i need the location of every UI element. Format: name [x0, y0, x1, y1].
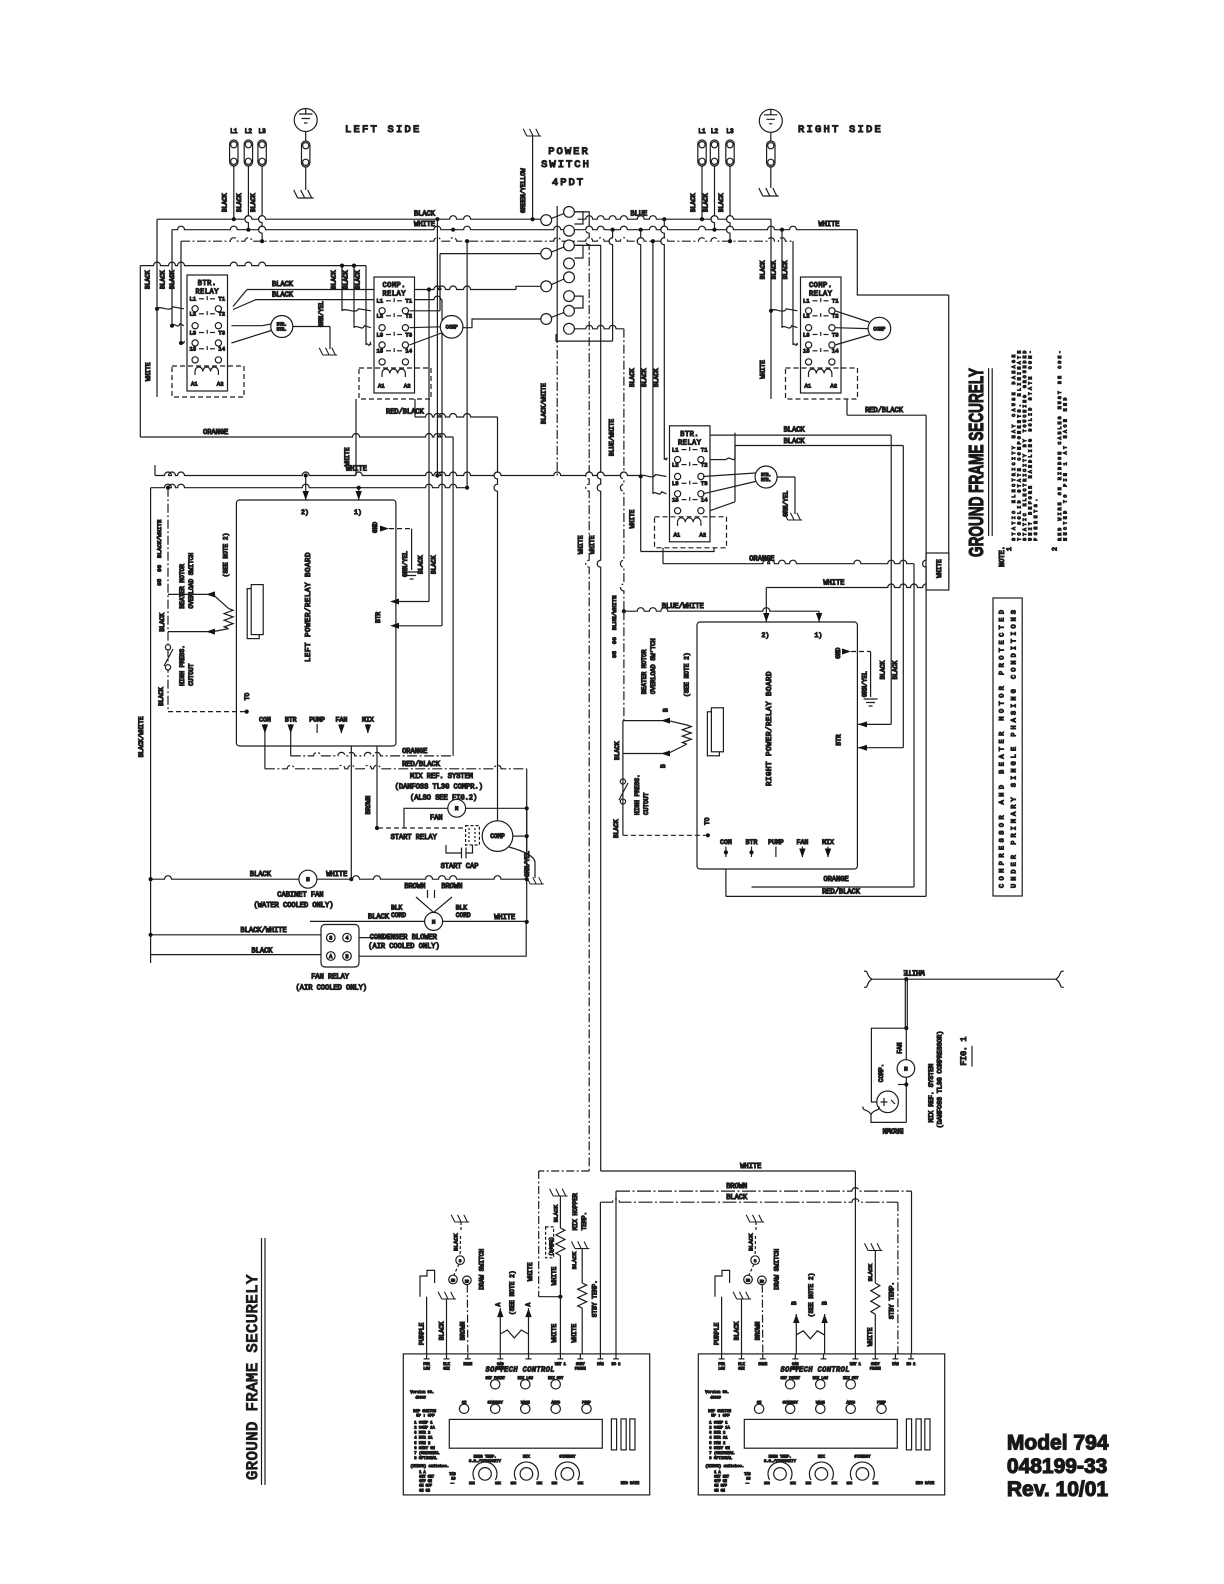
svg-text:NO: NO — [451, 1279, 455, 1283]
svg-text:--: -- — [745, 1482, 749, 1486]
svg-text:BLUE: BLUE — [631, 211, 648, 219]
protective earth symbol left — [294, 109, 317, 132]
high pressure cutout left — [165, 645, 170, 650]
svg-text:7 (ORIGINAL: 7 (ORIGINAL — [414, 1451, 440, 1456]
relay COMP left — [374, 277, 415, 393]
svg-text:A: A — [495, 1303, 502, 1307]
svg-text:10: 10 — [746, 1477, 750, 1481]
double underline ground frame right — [988, 368, 990, 536]
svg-text:1: 1 — [1006, 547, 1013, 551]
motor fan mix ref — [404, 808, 448, 828]
draw switch left panel — [451, 1215, 469, 1222]
svg-text:L3: L3 — [672, 480, 679, 487]
wire orange riser — [452, 437, 454, 756]
wire white right comp relay coil region — [770, 311, 772, 399]
overload connector block left — [247, 589, 259, 639]
svg-text:COM: COM — [259, 717, 271, 724]
svg-text:WHITE: WHITE — [629, 509, 636, 528]
svg-text:RED/BLACK: RED/BLACK — [386, 409, 425, 417]
svg-text:BLACK: BLACK — [159, 270, 166, 289]
svg-text:14: 14 — [832, 348, 839, 355]
wire black riser2 down to BTR pin right board — [902, 446, 904, 748]
svg-text:BTR.: BTR. — [761, 474, 771, 478]
svg-text:(ALSO SEE FIG.2): (ALSO SEE FIG.2) — [410, 795, 477, 803]
svg-text:L2: L2 — [711, 128, 719, 135]
svg-text:BLACK: BLACK — [355, 270, 362, 289]
motor BTR MTR right — [710, 459, 726, 461]
svg-text:SOFTECH CONTROL: SOFTECH CONTROL — [486, 1367, 556, 1375]
wire right L1 drop BLACK — [701, 166, 703, 219]
svg-text:BLACK: BLACK — [690, 193, 697, 212]
svg-text:13: 13 — [803, 348, 810, 355]
svg-text:BLACK: BLACK — [734, 1321, 741, 1340]
svg-text:DIP SWITCH: DIP SWITCH — [708, 1410, 731, 1414]
svg-text:WHITE: WHITE — [903, 968, 924, 976]
svg-text:MIG DATE: MIG DATE — [916, 1482, 935, 1486]
wire cabinet fan row — [151, 876, 527, 879]
svg-text:CORD: CORD — [391, 912, 406, 919]
wire stubs into right COMP relay — [771, 309, 797, 311]
wire bus2 left drop to relay L2 — [171, 230, 173, 326]
svg-text:STATIC ELECTRICITY MAY CAUSE D: STATIC ELECTRICITY MAY CAUSE DAMAGE — [1011, 354, 1017, 540]
wire WHITE left COMP relay coil to mid wire — [355, 399, 357, 476]
wire WHITE bottom run to right panel — [601, 1170, 856, 1172]
svg-text:BLACK: BLACK — [414, 211, 436, 219]
svg-text:BLUE/WHITE: BLUE/WHITE — [662, 603, 704, 611]
svg-text:MIN: MIN — [847, 1482, 853, 1485]
svg-text:BRWN: BRWN — [758, 1363, 767, 1367]
svg-text:Version CO.: Version CO. — [410, 1390, 434, 1395]
svg-text:WHITE: WHITE — [740, 1163, 761, 1171]
svg-text:GRN/YEL: GRN/YEL — [862, 671, 869, 697]
svg-text:A: A — [329, 954, 332, 960]
wire GRN/YEL from BTR MTR — [293, 326, 330, 328]
svg-text:6 STBY ON: 6 STBY ON — [414, 1447, 435, 1451]
wire bus2 jog down right side — [857, 230, 948, 295]
svg-text:BROWN: BROWN — [882, 1126, 903, 1134]
wire lower mid horizontal — [151, 484, 468, 488]
svg-text:5 FAN 2: 5 FAN 2 — [709, 1442, 726, 1446]
svg-text:T3: T3 — [701, 480, 708, 487]
svg-text:MIX: MIX — [822, 839, 834, 846]
svg-text:FAN RELAY: FAN RELAY — [311, 974, 350, 982]
wire bus2 tap to switch frame — [609, 230, 612, 341]
svg-text:T1: T1 — [832, 298, 839, 305]
stby temp probe right panel — [865, 1243, 883, 1250]
svg-text:MIX HOPPER: MIX HOPPER — [572, 1193, 579, 1230]
wire black riser1 down to BTR pin right board — [890, 435, 892, 724]
svg-text:LEFT POWER/RELAY BOARD: LEFT POWER/RELAY BOARD — [305, 552, 313, 662]
svg-text:SET SET: SET SET — [714, 1476, 729, 1480]
wire bus3 left drop to relay L3 — [180, 241, 182, 343]
svg-text:L2: L2 — [190, 311, 197, 318]
motor COMP compressor mix ref — [482, 821, 513, 852]
svg-text:UNIT BEFORE HANDLING SOLID STA: UNIT BEFORE HANDLING SOLID STATE COM- — [1027, 351, 1033, 541]
wire white riser right of comp — [526, 808, 528, 922]
wire riser bus3 tap down — [466, 241, 468, 488]
compressor protection note box — [993, 598, 1022, 896]
svg-text:10: 10 — [451, 1477, 455, 1481]
svg-text:RED/BLACK: RED/BLACK — [822, 888, 861, 896]
power switch pole bar black/white — [556, 206, 558, 334]
pin 2 right board — [763, 613, 769, 622]
svg-text:RED/BLACK: RED/BLACK — [402, 761, 441, 769]
svg-text:BROWN: BROWN — [754, 1321, 761, 1340]
svg-text:BLACK: BLACK — [771, 260, 778, 279]
svg-text:CORD: CORD — [456, 912, 471, 919]
purple bracket left panel — [420, 1270, 435, 1296]
svg-text:FIG. 1: FIG. 1 — [960, 1036, 969, 1065]
svg-text:STBY: STBY — [871, 1363, 880, 1367]
svg-text:2: 2 — [1052, 547, 1059, 551]
ground hatch left earth — [294, 190, 314, 198]
svg-text:BLK: BLK — [738, 1363, 745, 1367]
wire black/white long left vertical — [150, 488, 152, 963]
left power/relay board — [236, 500, 396, 746]
svg-text:2): 2) — [301, 509, 309, 516]
svg-text:BLACK: BLACK — [272, 292, 294, 300]
svg-text:4 BTR 11: 4 BTR 11 — [709, 1437, 728, 1441]
ground hatch BTR MTR left — [319, 348, 337, 355]
svg-text:14: 14 — [701, 496, 708, 503]
wire stubs into left COMP relay — [342, 309, 371, 311]
wire right L3 drop BLACK — [727, 166, 730, 241]
svg-text:4096?: 4096? — [710, 1396, 721, 1400]
svg-text:HIGH PRESS.: HIGH PRESS. — [179, 645, 186, 686]
wire L1 drop BLACK — [233, 166, 235, 219]
wire stubs into right BTR relay — [664, 458, 667, 460]
high pressure cutout right — [620, 779, 625, 784]
svg-text:B: B — [662, 708, 669, 712]
svg-text:BTR.: BTR. — [680, 431, 699, 439]
wire condenser M to white riser — [443, 920, 527, 922]
svg-text:BLK: BLK — [456, 905, 467, 912]
svg-text:1): 1) — [815, 632, 823, 639]
pin 1 left board — [358, 488, 360, 500]
svg-text:ORANGE: ORANGE — [749, 556, 774, 564]
svg-text:A1: A1 — [805, 383, 812, 390]
wire fan relay row upper — [151, 934, 321, 936]
svg-text:L3: L3 — [726, 128, 734, 135]
svg-text:L2: L2 — [245, 128, 253, 135]
svg-text:Rev. 10/01: Rev. 10/01 — [1007, 1478, 1109, 1501]
svg-text:T2: T2 — [405, 313, 412, 320]
svg-text:COMP.: COMP. — [382, 282, 406, 290]
svg-text:PUR: PUR — [423, 1363, 430, 1367]
ground hatch black pin2 right panel — [733, 1292, 751, 1299]
fig1 wire break squiggles top — [864, 971, 872, 987]
svg-text:BLACK: BLACK — [748, 1233, 755, 1251]
svg-text:BLACK: BLACK — [439, 1321, 446, 1340]
svg-text:M: M — [904, 1065, 907, 1072]
svg-text:ON OFF: ON OFF — [714, 1485, 727, 1489]
ground bars right board grn/yel — [864, 699, 878, 706]
svg-text:STBY TEMP.: STBY TEMP. — [592, 1280, 599, 1317]
svg-text:CONDENSER BLOWER: CONDENSER BLOWER — [370, 934, 438, 942]
svg-text:GRN/YEL: GRN/YEL — [318, 301, 325, 327]
svg-text:NC: NC — [465, 1279, 469, 1283]
svg-text:T3: T3 — [832, 331, 839, 338]
svg-text:MTR.: MTR. — [761, 479, 771, 483]
svg-text:(SEE NOTE 2): (SEE NOTE 2) — [222, 533, 229, 578]
svg-text:TO: TO — [704, 817, 711, 825]
wire riser bus1 tap down — [436, 219, 438, 475]
capacitor brown leads condenser — [416, 897, 434, 912]
svg-text:BROWN: BROWN — [365, 796, 372, 815]
svg-text:BLACK: BLACK — [629, 368, 636, 387]
svg-text:BLACK: BLACK — [760, 260, 767, 279]
svg-text:WHITE: WHITE — [145, 362, 152, 381]
svg-text:SET SET: SET SET — [419, 1476, 434, 1480]
svg-text:13: 13 — [190, 346, 197, 353]
svg-text:BLACK: BLACK — [222, 193, 229, 212]
ground hatch right earth — [759, 188, 779, 196]
wire 95/96 black/white drop left — [167, 488, 169, 712]
svg-text:COMP: COMP — [873, 326, 885, 332]
earth terminal right — [767, 141, 775, 167]
svg-text:BLACK: BLACK — [726, 1194, 748, 1202]
svg-text:WHITE: WHITE — [527, 1262, 534, 1281]
svg-text:RELAY: RELAY — [809, 291, 833, 299]
svg-text:ORANGE: ORANGE — [402, 748, 427, 756]
svg-text:COMP.: COMP. — [878, 1064, 885, 1083]
svg-text:BLACK: BLACK — [552, 1204, 559, 1222]
stby temp probe left panel — [571, 1241, 589, 1248]
svg-text:BLACK: BLACK — [571, 1251, 578, 1269]
svg-text:BLACK: BLACK — [784, 427, 806, 435]
svg-text:ORANGE: ORANGE — [203, 429, 228, 437]
svg-text:B: B — [660, 764, 667, 768]
svg-text:COMP: COMP — [490, 833, 505, 840]
svg-text:BLACK: BLACK — [641, 368, 648, 387]
svg-text:13: 13 — [672, 496, 679, 503]
wire feeder bus2 white via mid wire to L2 — [637, 230, 640, 552]
svg-text:BLACK: BLACK — [867, 1263, 874, 1281]
svg-text:T2: T2 — [832, 313, 839, 320]
svg-text:1 COMP 1: 1 COMP 1 — [709, 1421, 728, 1425]
wire fan relay row lower — [151, 954, 321, 956]
svg-text:MAX: MAX — [873, 1482, 879, 1485]
svg-text:A: A — [525, 1303, 532, 1307]
svg-text:PURPLE: PURPLE — [714, 1322, 721, 1345]
svg-text:Model 794: Model 794 — [1007, 1432, 1109, 1455]
wire RED/BLACK from left COMP relay coil to start compressor — [414, 399, 416, 417]
power switch throw contacts — [564, 207, 575, 218]
power switch blades — [552, 214, 564, 219]
power switch contact jumpers — [574, 212, 583, 308]
svg-text:WHITE: WHITE — [414, 221, 435, 229]
boxed WHITE label right — [926, 553, 949, 590]
svg-text:BLACK: BLACK — [144, 270, 151, 289]
svg-text:BTR.: BTR. — [198, 280, 217, 288]
wire bus1 left drop WHITE to BTR coil box — [156, 219, 158, 397]
svg-text:MAX: MAX — [537, 1482, 543, 1485]
svg-text:A2: A2 — [830, 383, 837, 390]
svg-text:L2: L2 — [377, 313, 384, 320]
svg-text:7 (ORIGINAL: 7 (ORIGINAL — [709, 1451, 735, 1456]
motor condenser blower — [425, 912, 443, 930]
wire left board COM to red/black run — [264, 733, 266, 769]
svg-text:NC: NC — [760, 1279, 764, 1283]
pin 1 right board — [816, 613, 822, 622]
svg-text:BLACK: BLACK — [453, 1233, 460, 1251]
svg-text:BLACK: BLACK — [343, 270, 350, 289]
svg-text:BLACK: BLACK — [250, 871, 272, 879]
svg-text:95 96 BLACK/WHITE: 95 96 BLACK/WHITE — [156, 519, 163, 586]
wire BLACK riser to left board BTR lower — [441, 300, 443, 626]
svg-text:SWITCH: SWITCH — [541, 159, 591, 171]
svg-text:3 BTR 2: 3 BTR 2 — [709, 1432, 726, 1436]
svg-text:WHITE: WHITE — [344, 447, 351, 466]
svg-text:L3: L3 — [258, 128, 266, 135]
start relay — [378, 827, 466, 829]
svg-text:WHT 1: WHT 1 — [555, 1363, 566, 1367]
svg-text:BLACK/WHITE: BLACK/WHITE — [541, 383, 548, 424]
svg-text:BLACK: BLACK — [892, 661, 899, 680]
svg-text:T2: T2 — [218, 311, 225, 318]
svg-text:GNI: GNI — [443, 1367, 449, 1371]
svg-text:2 COMP 1A: 2 COMP 1A — [709, 1427, 730, 1431]
svg-text:FAN: FAN — [336, 717, 348, 724]
svg-text:M: M — [455, 805, 458, 812]
svg-text:L1: L1 — [377, 298, 384, 305]
svg-text:T2: T2 — [701, 461, 708, 468]
svg-text:GROUND FRAME SECURELY: GROUND FRAME SECURELY — [244, 1274, 262, 1480]
overload connector block right — [707, 712, 719, 756]
pin 2 left board — [305, 476, 307, 501]
svg-text:MIG DATE: MIG DATE — [621, 1482, 640, 1486]
svg-text:L2: L2 — [803, 313, 810, 320]
svg-text:PUR: PUR — [718, 1363, 725, 1367]
motor BTR MTR left — [231, 325, 262, 327]
svg-text:STBY TEMP.: STBY TEMP. — [888, 1282, 895, 1319]
svg-text:8 OPTIONAL: 8 OPTIONAL — [414, 1457, 438, 1461]
svg-text:WHITE: WHITE — [823, 579, 844, 587]
svg-text:PUMP: PUMP — [768, 839, 784, 846]
svg-text:1): 1) — [354, 509, 362, 516]
svg-text:L1: L1 — [672, 446, 679, 453]
svg-text:MAX: MAX — [832, 1482, 838, 1485]
wire BLACK relay T1 to power switch — [233, 290, 247, 307]
svg-text:A1: A1 — [674, 531, 681, 538]
wire BLACK right btr to riser2 — [735, 445, 903, 447]
wire BLACK relay row2 — [233, 300, 256, 310]
svg-text:COMP.: COMP. — [809, 282, 833, 290]
wire blue/white continuation through overload to cutout — [623, 611, 625, 720]
svg-text:BROWN: BROWN — [441, 883, 462, 891]
wire comp to white riser — [513, 835, 527, 837]
svg-text:MIN: MIN — [764, 1482, 770, 1485]
svg-text:GREEN/YELLOW: GREEN/YELLOW — [520, 168, 527, 213]
svg-text:1 A: 1 A — [419, 1471, 426, 1475]
svg-text:STANDBY: STANDBY — [854, 1455, 871, 1459]
svg-text:3: 3 — [329, 936, 332, 942]
svg-text:MIX: MIX — [523, 1455, 531, 1459]
draw switch right panel — [746, 1215, 764, 1222]
wire condenser blower row — [310, 920, 425, 922]
svg-text:A2: A2 — [699, 531, 706, 538]
svg-text:STBY: STBY — [576, 1363, 585, 1367]
ground hatch black pin2 left panel — [438, 1292, 456, 1299]
wire bus3 drop to right COMP relay L3 — [792, 241, 794, 345]
ground bars left board grn/yel — [405, 572, 419, 579]
svg-text:A2: A2 — [404, 383, 411, 390]
svg-text:FAN: FAN — [430, 815, 443, 823]
svg-text:T1: T1 — [405, 298, 412, 305]
A jumper arrows left panel — [499, 1316, 501, 1354]
svg-text:T1: T1 — [218, 296, 225, 303]
wire switch common taps going left — [463, 319, 541, 328]
svg-text:FAN: FAN — [892, 1363, 898, 1367]
svg-text:DRAW SWITCH: DRAW SWITCH — [478, 1249, 485, 1290]
svg-text:COMPRESSOR AND BEATER MOTOR PR: COMPRESSOR AND BEATER MOTOR PROTECTED — [999, 610, 1007, 888]
svg-text:(AIR COOLED ONLY): (AIR COOLED ONLY) — [368, 943, 439, 951]
svg-text:BLACK: BLACK — [879, 661, 886, 680]
relay BTR left — [187, 275, 228, 391]
svg-text:OVERLOAD SWITCH: OVERLOAD SWITCH — [188, 553, 195, 609]
ground hatch comp grn/yel — [527, 877, 544, 884]
fig1 vertical white pair — [904, 979, 906, 1028]
svg-text:LOW: LOW — [423, 1367, 430, 1371]
svg-text:BLACK: BLACK — [702, 193, 709, 212]
fig1 wire break squiggle bottom — [863, 1107, 879, 1115]
svg-text:PURPLE: PURPLE — [419, 1322, 426, 1345]
svg-text:WHITE: WHITE — [571, 1324, 578, 1343]
svg-text:MIN: MIN — [469, 1482, 475, 1485]
svg-text:14: 14 — [405, 348, 412, 355]
wire BLACK right btr to riser1 — [710, 434, 891, 436]
power switch common contacts — [541, 215, 552, 226]
svg-text:MIN: MIN — [552, 1482, 558, 1485]
wire bus2 WHITE neutral run — [172, 226, 857, 230]
svg-text:GRN/YEL: GRN/YEL — [782, 490, 789, 516]
wire black to pin2 left panel — [446, 1299, 448, 1354]
svg-text:ON ON: ON ON — [419, 1489, 430, 1493]
svg-text:WHT 1: WHT 1 — [850, 1363, 861, 1367]
svg-text:L1: L1 — [190, 296, 197, 303]
svg-text:RED/BLACK: RED/BLACK — [865, 407, 904, 415]
svg-text:WHITE: WHITE — [577, 535, 584, 554]
svg-text:RIGHT SIDE: RIGHT SIDE — [798, 124, 883, 136]
wire L3 drop BLACK — [259, 166, 263, 241]
earth terminal left — [302, 141, 310, 167]
fan relay box — [321, 925, 359, 968]
svg-text:BROWN: BROWN — [459, 1321, 466, 1340]
svg-text:BLACK: BLACK — [331, 270, 338, 289]
svg-text:T3: T3 — [218, 329, 225, 336]
svg-text:TAB: TAB — [449, 1473, 455, 1477]
wire GREEN/YELLOW to bus1 — [532, 136, 534, 219]
svg-text:L1: L1 — [698, 128, 706, 135]
right power/relay board — [697, 622, 857, 869]
svg-text:POWER: POWER — [548, 146, 590, 158]
svg-text:MTR.: MTR. — [277, 329, 287, 333]
svg-text:B: B — [821, 1301, 828, 1305]
svg-text:TAB: TAB — [744, 1473, 750, 1477]
svg-text:DRAW SWITCH: DRAW SWITCH — [773, 1249, 780, 1290]
wire brown draw switch to pin3 left panel — [466, 1285, 469, 1354]
svg-text:BLACK: BLACK — [613, 819, 620, 838]
svg-text:BLUE/WHITE: BLUE/WHITE — [609, 419, 616, 456]
svg-text:(MINOR) switches.: (MINOR) switches. — [705, 1464, 744, 1469]
wire switch to dash-dot left white riser — [574, 212, 589, 217]
wire ORANGE left loop across — [140, 434, 453, 438]
svg-text:MAX: MAX — [495, 1482, 501, 1485]
svg-text:BLACK/WHITE: BLACK/WHITE — [138, 716, 145, 757]
motor COMP right compressor — [835, 311, 869, 322]
wire dash-dot to left panel WHT1 — [539, 1170, 590, 1172]
svg-text:M: M — [432, 918, 435, 925]
